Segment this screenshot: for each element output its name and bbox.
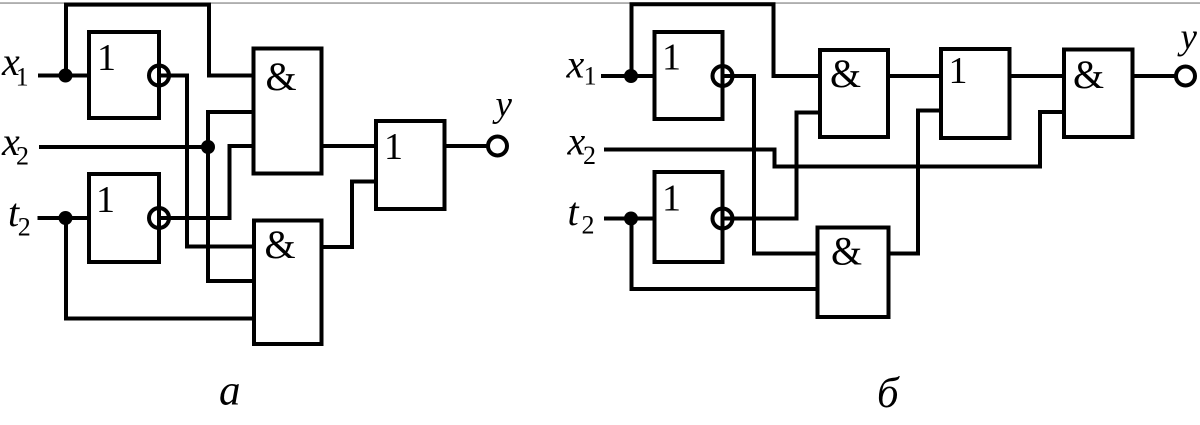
svg-text:t: t [568, 189, 580, 234]
svg-text:&: & [266, 54, 297, 99]
svg-text:1: 1 [16, 63, 29, 92]
svg-text:y: y [492, 84, 513, 125]
svg-text:1: 1 [97, 37, 116, 79]
svg-text:б: б [877, 370, 900, 417]
svg-text:&: & [265, 222, 296, 267]
svg-text:а: а [219, 368, 241, 415]
svg-text:1: 1 [662, 37, 681, 79]
svg-text:1: 1 [662, 178, 681, 220]
svg-text:2: 2 [583, 141, 596, 170]
svg-text:&: & [1073, 52, 1104, 97]
svg-text:1: 1 [949, 50, 968, 92]
svg-text:&: & [830, 51, 861, 96]
svg-text:1: 1 [384, 126, 403, 168]
svg-text:y: y [1177, 17, 1198, 58]
svg-text:2: 2 [582, 211, 595, 240]
svg-text:&: & [831, 229, 862, 274]
svg-text:2: 2 [18, 213, 31, 242]
svg-text:1: 1 [96, 179, 115, 221]
svg-text:1: 1 [584, 62, 597, 91]
svg-text:x: x [566, 42, 585, 87]
svg-text:2: 2 [16, 142, 29, 171]
